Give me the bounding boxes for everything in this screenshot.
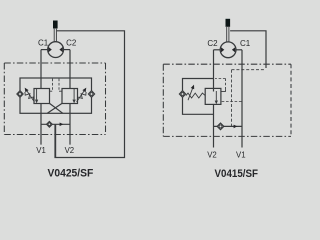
drain dashed vertical: [231, 70, 233, 127]
motor arrow right: [232, 47, 235, 52]
wire solid boundary from shaft to bottom: [55, 31, 125, 158]
check diamond on line: [47, 122, 53, 128]
inner valve block box: [20, 78, 92, 113]
wire C2 stub: [64, 49, 71, 51]
wire solid hook from shaft: [230, 31, 266, 68]
svg-text:V1: V1: [36, 146, 46, 155]
wire C1 stub: [236, 49, 242, 51]
wire C2 stub: [214, 49, 221, 51]
svg-text:V1: V1: [236, 151, 246, 160]
relief spring left with adjust arrow: [25, 88, 35, 102]
motor arrow left: [221, 47, 224, 52]
relief valve square left: [34, 89, 50, 104]
relief valve arrow right: [73, 89, 75, 102]
motor shaft double line: [227, 27, 229, 42]
anti-cavitation check line: [41, 123, 70, 125]
svg-text:V2: V2: [207, 151, 217, 160]
motor arrow left: [48, 47, 51, 52]
flow arrow on check line: [234, 125, 238, 129]
flow arrow on check line: [60, 123, 64, 127]
motor arrow right: [59, 47, 62, 52]
svg-text:C1: C1: [38, 39, 49, 48]
svg-text:C2: C2: [207, 39, 218, 48]
drain dashed horizontal: [232, 69, 266, 71]
outer dash-dot housing box: [4, 63, 105, 135]
pilot dashed to C1 line: [222, 101, 242, 103]
check diamond on line: [217, 123, 224, 130]
outer dash-dot housing box right: [163, 64, 291, 136]
motor shaft black end M1: [53, 21, 58, 29]
wire center drain vertical: [55, 124, 57, 157]
pilot dashed lines between valves: [50, 79, 62, 92]
motor shaft double line: [54, 29, 56, 42]
relief spring right with adjust arrow: [77, 88, 87, 102]
relief valve square right: [62, 89, 78, 104]
crossover X lines: [47, 103, 63, 113]
relief valve arrow left: [35, 89, 37, 102]
motor circle M2: [220, 42, 236, 58]
motor circle M1: [48, 42, 64, 58]
anti-cavitation check line: [214, 125, 243, 127]
wire C1 vertical: [40, 50, 42, 145]
relief valve square: [205, 88, 221, 104]
check valve ball right: [88, 91, 94, 98]
motor shaft black end M2: [226, 19, 231, 27]
check valve ball left: [17, 91, 23, 98]
wire C1 stub: [41, 49, 48, 51]
pilot dashed hook at valve top: [221, 90, 226, 92]
relief valve arrow: [215, 91, 217, 103]
relief spring with adjust arrow: [186, 85, 205, 101]
check valve ball: [179, 91, 185, 98]
svg-text:V0415/SF: V0415/SF: [215, 168, 259, 180]
svg-text:V2: V2: [65, 146, 75, 155]
svg-text:C2: C2: [66, 39, 77, 48]
wire C2 vertical: [213, 50, 215, 148]
svg-text:C1: C1: [240, 39, 251, 48]
svg-text:V0425/SF: V0425/SF: [48, 168, 94, 180]
inner valve loop: [183, 79, 214, 115]
wire C1 vertical full: [241, 50, 243, 148]
wire C2 vertical: [69, 50, 71, 145]
